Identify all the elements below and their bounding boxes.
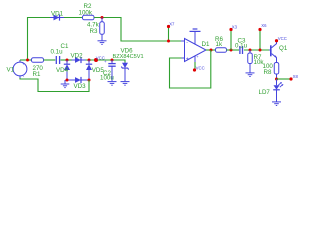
capacitor C2 100u <box>100 59 116 82</box>
svg-text:+: + <box>22 62 25 67</box>
svg-text:0.1u: 0.1u <box>51 49 64 56</box>
svg-text:+: + <box>186 57 189 63</box>
wire R2 to corner and down to op-amp minus rail <box>94 18 182 42</box>
svg-text:VD2: VD2 <box>71 53 84 60</box>
diode VD2 <box>71 53 86 64</box>
wire bridge top-right to VD6 corner <box>86 60 126 63</box>
diode VD5 <box>86 60 105 80</box>
transistor Q1 <box>269 42 288 63</box>
wire return path V1 bottom to bridge bottom-right <box>20 78 89 92</box>
terminal VCC op-amp bottom <box>193 62 205 72</box>
node A junction V1/VD1/R1 <box>26 59 29 62</box>
diode VD1 <box>50 10 64 20</box>
svg-text:1k: 1k <box>216 41 223 48</box>
svg-text:X6: X6 <box>261 23 267 28</box>
svg-text:0.1u: 0.1u <box>235 43 248 50</box>
svg-text:VD3: VD3 <box>74 83 87 90</box>
wire R6 to C3 <box>227 49 240 51</box>
wire top-left L from node A up and right to VD1 <box>28 18 52 61</box>
ground below C2 <box>108 82 117 86</box>
zener VD6 BZX84C5V1 <box>113 48 144 82</box>
svg-text:LD7: LD7 <box>259 89 271 96</box>
svg-text:R1: R1 <box>33 71 41 78</box>
wire feedback loop output to plus input <box>170 50 211 88</box>
svg-text:VCC: VCC <box>196 66 205 71</box>
node R7 junction <box>249 49 252 52</box>
wire op-amp output <box>206 49 216 51</box>
ground below VD6 <box>121 82 130 86</box>
node output junction <box>210 49 213 52</box>
svg-text:VD4: VD4 <box>56 67 69 74</box>
node bridge top-right <box>88 59 91 62</box>
terminal X7 <box>167 22 175 41</box>
ground below R7 <box>246 73 255 77</box>
LED LD7 <box>259 79 284 102</box>
svg-text:R8: R8 <box>264 69 272 76</box>
node junction X7 on minus rail <box>167 40 170 43</box>
terminal X6 <box>258 23 267 50</box>
diode VD3 <box>67 77 89 90</box>
svg-text:R3: R3 <box>90 28 98 35</box>
svg-text:VD1: VD1 <box>51 10 64 17</box>
svg-text:100k: 100k <box>79 10 93 17</box>
wire R1 to C1 <box>44 59 56 61</box>
svg-text:X7: X7 <box>169 22 175 27</box>
resistor R6 1k <box>215 36 227 52</box>
svg-text:V1: V1 <box>7 66 15 73</box>
resistor R1 270 <box>32 58 44 78</box>
ground below R3 <box>98 41 107 45</box>
svg-text:VCC: VCC <box>278 36 287 41</box>
resistor R2 100k <box>79 3 95 20</box>
source V1 <box>7 60 27 79</box>
wire main rail V1 to R1 <box>20 59 32 61</box>
node X6 junction <box>259 49 262 52</box>
capacitor C1 0.1u <box>51 43 69 64</box>
resistor R8 100 <box>263 63 279 80</box>
svg-text:D1: D1 <box>202 41 210 48</box>
node bridge top-left <box>66 59 69 62</box>
wire to terminal X8 <box>277 74 299 81</box>
ground below LD7 <box>272 102 281 106</box>
svg-text:+: + <box>104 59 107 64</box>
op-amp D1 <box>181 32 210 63</box>
net tap VCC on rail <box>94 55 105 62</box>
svg-text:X3: X3 <box>232 25 238 30</box>
resistor R7 10k <box>248 50 265 73</box>
terminal VCC at Q1 collector <box>275 36 287 42</box>
wire C1 to bridge left node <box>61 59 73 61</box>
svg-text:X8: X8 <box>293 74 299 79</box>
resistor R3 4.7k <box>87 18 104 41</box>
wire VD1 to R2 <box>64 17 83 19</box>
node emitter junction <box>275 78 278 81</box>
terminal X3 <box>229 25 237 50</box>
svg-text:Q1: Q1 <box>279 45 288 52</box>
node junction R2/R3 <box>101 16 104 19</box>
diode VD4 <box>56 60 70 80</box>
capacitor C3 0.1u <box>235 37 248 54</box>
wire C3 to Q1 base <box>244 49 269 51</box>
node R6/X3 junction <box>230 49 233 52</box>
svg-text:+: + <box>196 54 199 59</box>
node bridge bottom-left <box>66 79 69 82</box>
node bridge bottom-right <box>88 79 91 82</box>
power bar above op-amp <box>190 29 201 31</box>
svg-text:BZX84C5V1: BZX84C5V1 <box>113 54 144 60</box>
svg-text:100u: 100u <box>100 75 114 82</box>
ground at bridge bottom-left <box>61 80 70 88</box>
